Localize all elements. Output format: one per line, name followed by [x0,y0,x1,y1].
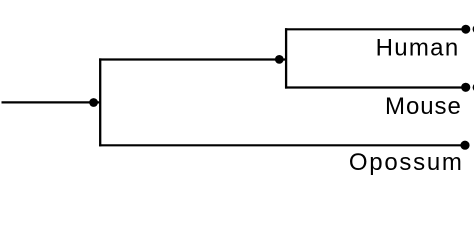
svg-text:Opossum: Opossum [349,149,464,176]
svg-text:Human: Human [376,35,460,62]
svg-text:Mouse: Mouse [385,93,462,120]
